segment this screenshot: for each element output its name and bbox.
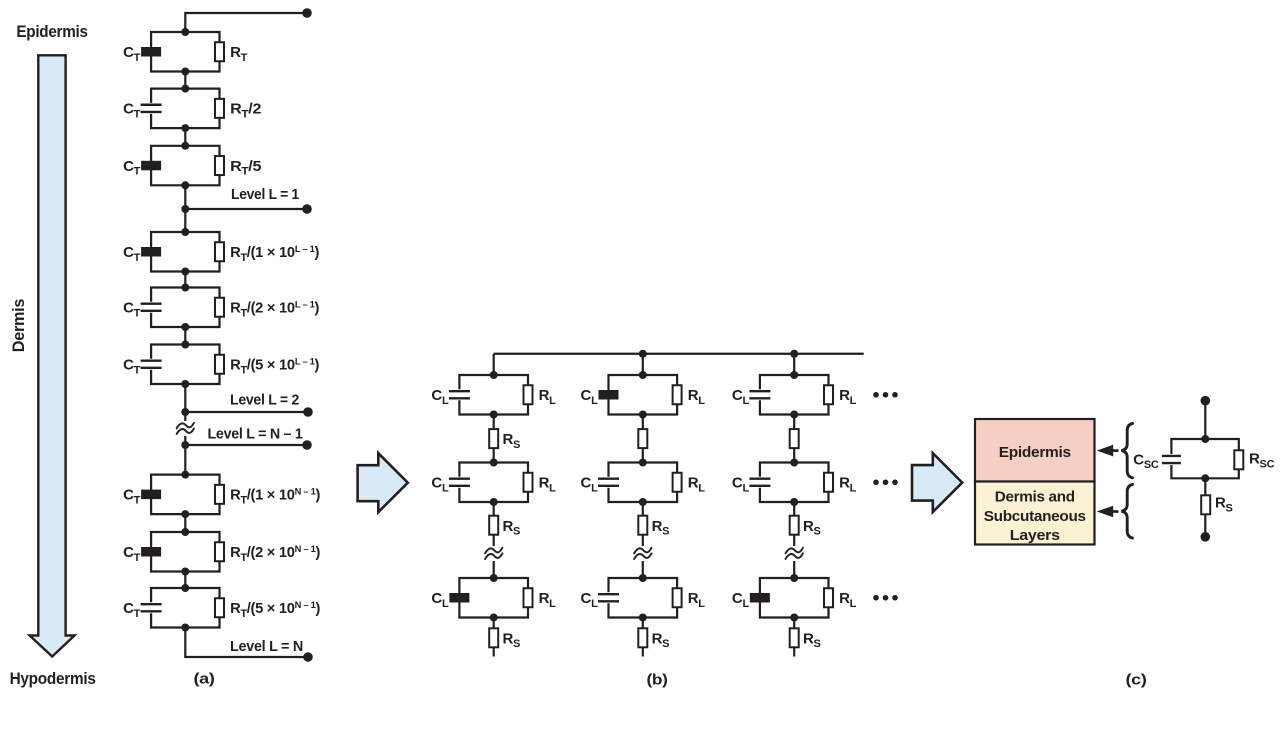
- svg-text:Layers: Layers: [1010, 527, 1060, 544]
- svg-text:(a): (a): [194, 671, 215, 688]
- svg-text:Level L = N: Level L = N: [230, 638, 303, 655]
- svg-text:Level L = 1: Level L = 1: [231, 186, 299, 203]
- svg-text:Dermis: Dermis: [9, 299, 28, 352]
- svg-text:Subcutaneous: Subcutaneous: [984, 508, 1086, 525]
- svg-text:(b): (b): [647, 672, 668, 689]
- svg-text:Epidermis: Epidermis: [16, 22, 87, 41]
- svg-text:Level L = N – 1: Level L = N – 1: [208, 426, 303, 443]
- svg-text:Epidermis: Epidermis: [999, 444, 1071, 461]
- svg-text:(c): (c): [1126, 672, 1147, 689]
- svg-text:Level L = 2: Level L = 2: [230, 392, 299, 409]
- svg-text:Dermis and: Dermis and: [995, 489, 1075, 506]
- svg-text:Hypodermis: Hypodermis: [10, 669, 96, 688]
